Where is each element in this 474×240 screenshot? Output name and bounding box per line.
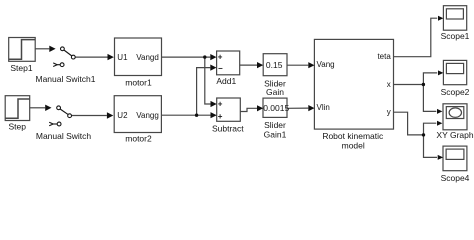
sum block Add1 [217, 51, 240, 75]
svg-text:motor1: motor1 [125, 77, 152, 87]
svg-text:XY Graph: XY Graph [436, 130, 473, 140]
svg-text:Scope4: Scope4 [441, 173, 470, 183]
wire y branch to XY Graph in2 [424, 123, 437, 135]
wire branch motor1 to Subtract in1 [205, 57, 211, 104]
gain block Slider Gain1 [263, 98, 287, 117]
arrow into Scope2 [438, 70, 443, 75]
manual switch Manual Switch1 [53, 47, 75, 67]
svg-text:Step1: Step1 [10, 63, 32, 73]
wire x branch to XY Graph in1 [423, 85, 436, 112]
sum block Subtract [217, 98, 241, 121]
wire Manual Switch1 to motor1 [75, 56, 108, 58]
svg-text:U2: U2 [117, 111, 128, 120]
junction node y branch [422, 133, 425, 136]
junction node x branch [422, 83, 425, 86]
arrow into Manual Switch [45, 105, 51, 111]
svg-text:+: + [218, 52, 223, 61]
arrow into Vlin [308, 105, 314, 111]
svg-text:Scope2: Scope2 [441, 87, 470, 97]
manual switch Manual Switch [49, 106, 71, 126]
arrow into motor2 U2 [107, 112, 113, 118]
svg-text:Gain1: Gain1 [264, 129, 287, 139]
scope block Scope4 [443, 146, 467, 171]
svg-text:teta: teta [377, 52, 391, 61]
svg-text:+: + [218, 99, 223, 108]
svg-text:0.15: 0.15 [266, 60, 283, 70]
arrow into Add1 in1 [210, 54, 216, 60]
xy graph block XY Graph [443, 104, 467, 130]
scope block Scope1 [443, 6, 466, 31]
arrow into Manual Switch1 [49, 46, 55, 52]
svg-text:U1: U1 [117, 53, 128, 62]
svg-text:Scope1: Scope1 [441, 31, 470, 41]
wire x to Scope2 [394, 73, 438, 85]
wire Subtract to Slider Gain1 [240, 108, 257, 111]
svg-text:Manual Switch: Manual Switch [36, 131, 92, 141]
arrow into Slider Gain [257, 62, 263, 68]
junction node motor1 branch [203, 55, 206, 58]
svg-text:x: x [387, 80, 391, 89]
svg-text:motor2: motor2 [125, 133, 152, 143]
subsystem Robot kinematic model [314, 39, 393, 129]
svg-text:y: y [387, 108, 391, 117]
arrowheads [45, 16, 443, 160]
arrow into Slider Gain1 [257, 105, 263, 111]
wire branch motor2 to Add1 in2 [197, 68, 211, 116]
svg-text:Manual Switch1: Manual Switch1 [35, 74, 95, 84]
subsystem motor1 [115, 38, 162, 76]
wire Slider Gain1 to Vlin [287, 107, 308, 109]
wire Step to Manual Switch [30, 107, 46, 109]
wire motor1 Vangd to Add1 in1 [162, 56, 211, 58]
svg-text:Vangd: Vangd [136, 53, 159, 62]
svg-text:Vangg: Vangg [136, 111, 159, 120]
junction node motor2 branch [195, 114, 198, 117]
svg-text:Gain: Gain [266, 87, 284, 97]
svg-text:model: model [342, 141, 365, 151]
arrow into XY Graph in2 [437, 121, 442, 126]
wire y branch to Scope4 [424, 135, 438, 158]
svg-text:+: + [218, 112, 223, 121]
svg-text:Subtract: Subtract [212, 124, 244, 134]
arrow into Subtract in1 [211, 101, 217, 107]
source block Step1 [9, 38, 36, 62]
wire teta to Scope1 [394, 18, 438, 57]
arrow into Add1 in2 [210, 65, 216, 71]
svg-text:Step: Step [8, 122, 26, 132]
wire Add1 to Slider Gain [240, 64, 257, 66]
arrow into motor1 U1 [108, 54, 114, 60]
wire Slider Gain to Vang [287, 64, 308, 66]
scope block Scope2 [443, 60, 466, 84]
svg-text:0.0015: 0.0015 [263, 103, 289, 113]
source block Step [5, 96, 30, 121]
svg-text:Robot kinematic: Robot kinematic [322, 131, 384, 141]
wire y to junction [394, 112, 424, 135]
wire Manual Switch to motor2 [71, 115, 107, 117]
arrow into Scope1 [438, 16, 443, 21]
gain block Slider Gain [263, 54, 287, 76]
svg-text:Add1: Add1 [216, 76, 236, 86]
wire motor2 Vangg to Subtract in2 [161, 114, 210, 116]
wire Step1 to Manual Switch1 [35, 48, 49, 50]
subsystem motor2 [114, 96, 161, 133]
arrow into Subtract in2 [211, 112, 217, 118]
arrow into XY Graph in1 [437, 109, 442, 114]
svg-text:Vang: Vang [317, 60, 335, 69]
arrow into Scope4 [438, 155, 443, 160]
svg-text:−: − [218, 64, 223, 73]
svg-text:Vlin: Vlin [317, 103, 330, 112]
arrow into Vang [308, 62, 314, 68]
